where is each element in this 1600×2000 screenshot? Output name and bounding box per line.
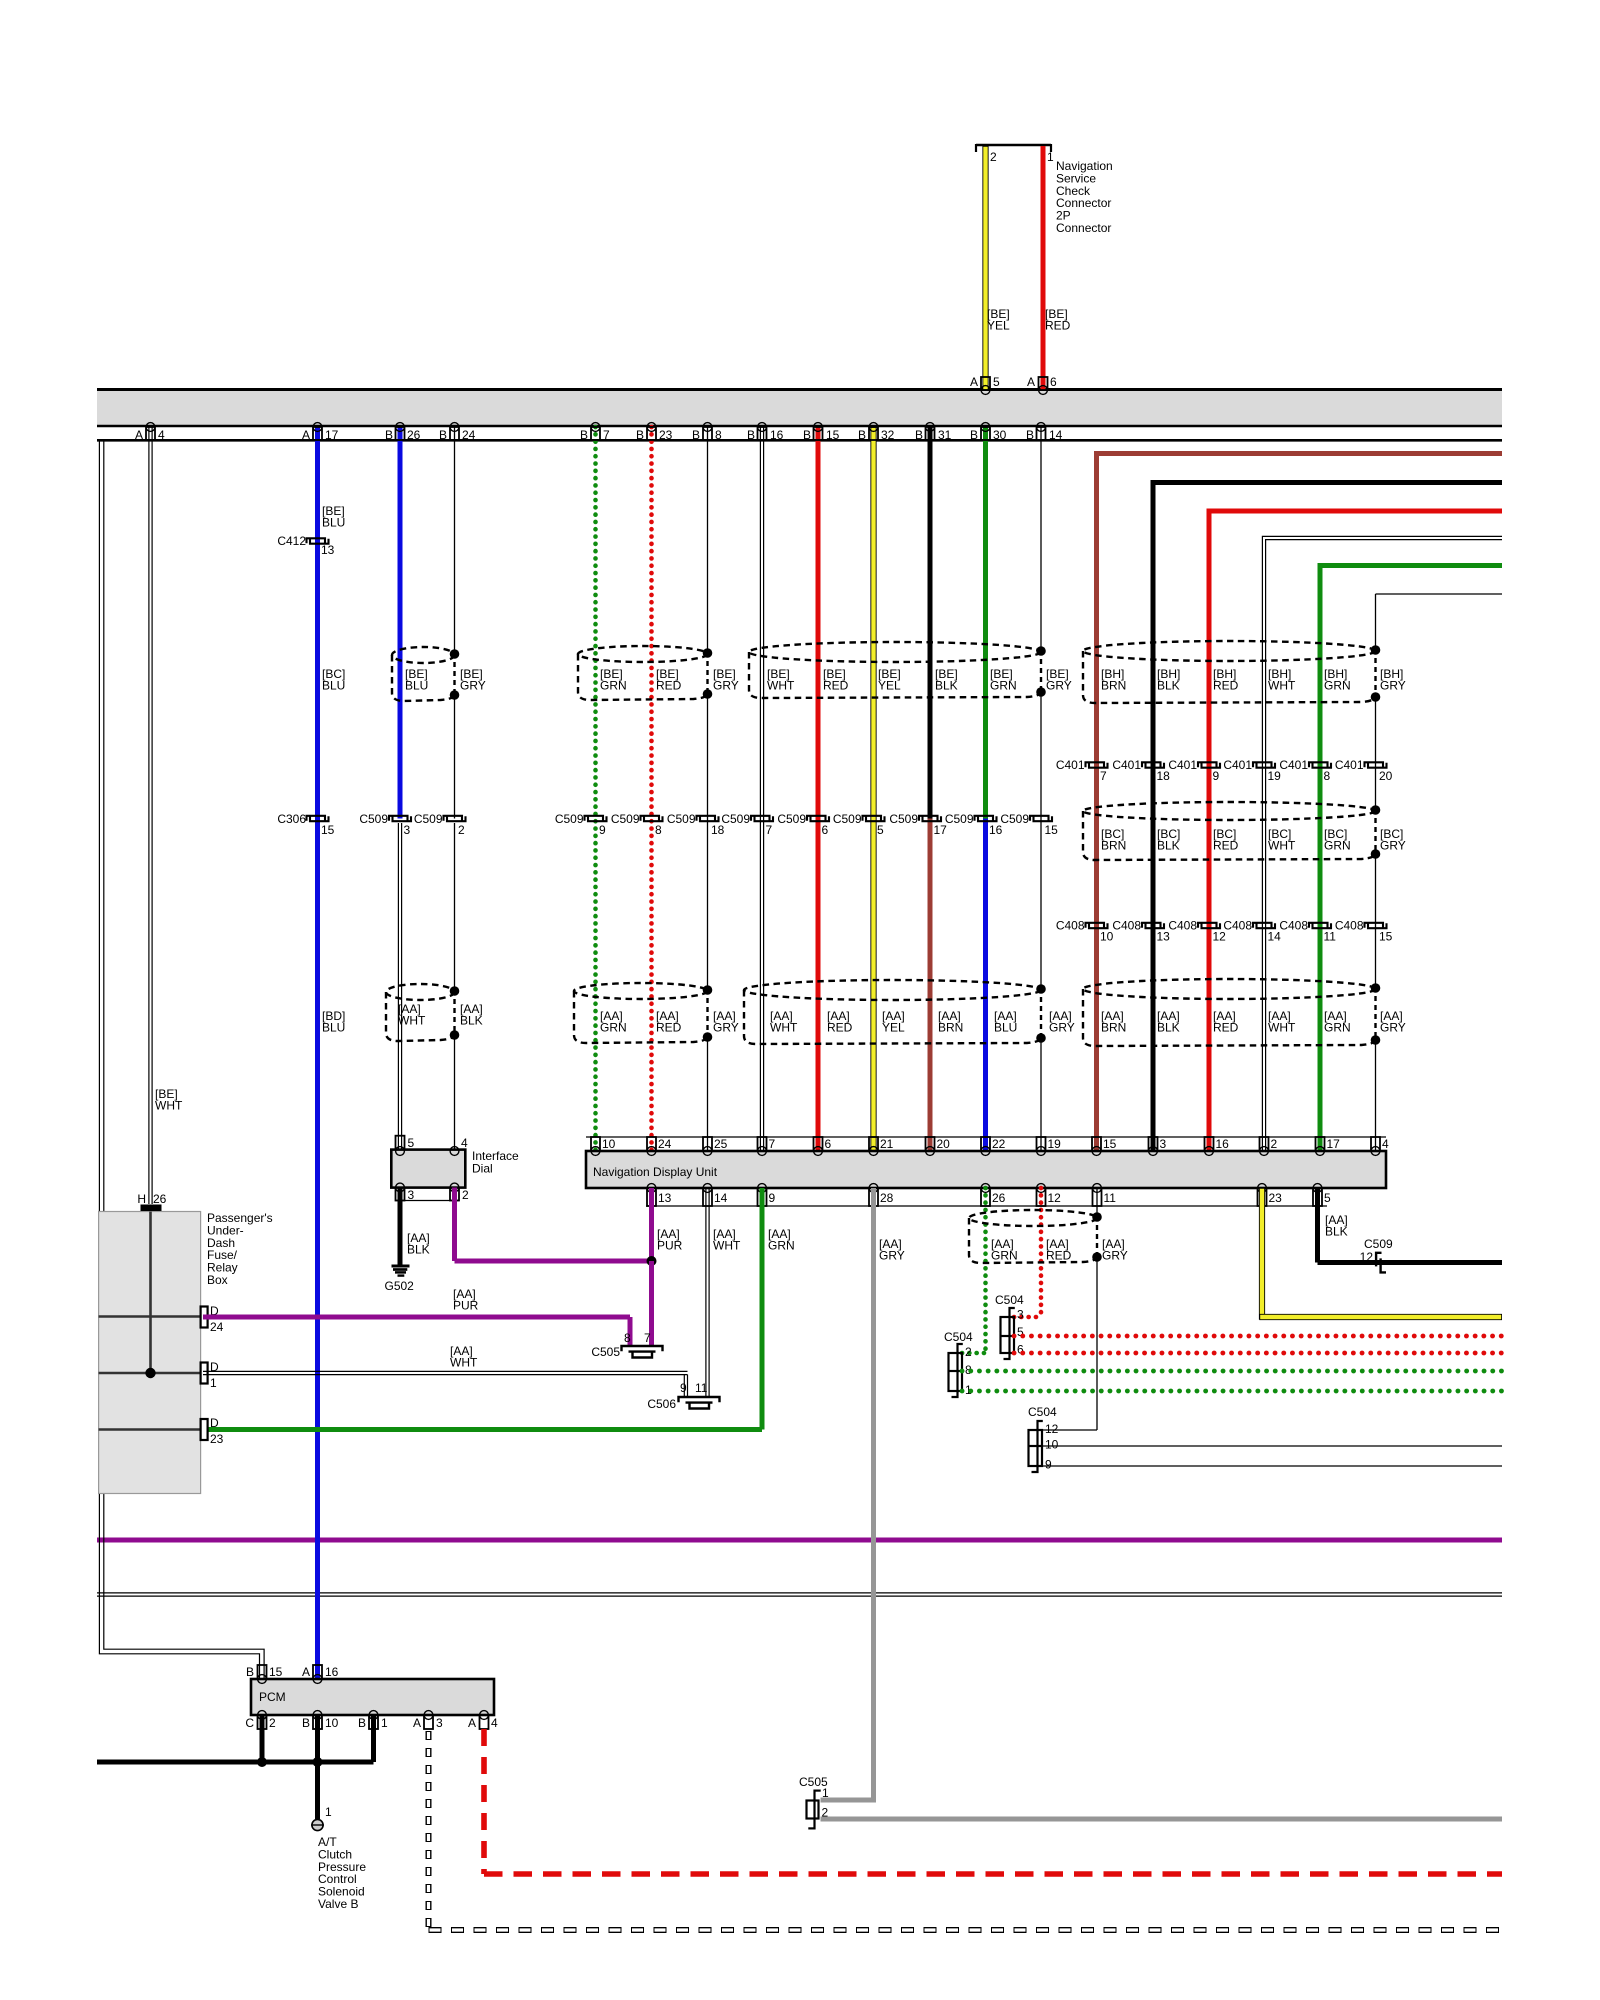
pin B 26 on bus bar bbox=[396, 423, 405, 432]
svg-text:15: 15 bbox=[1045, 823, 1059, 837]
node main harness bus bar bbox=[97, 390, 1502, 426]
svg-text:C401: C401 bbox=[1168, 758, 1197, 772]
svg-text:C504: C504 bbox=[995, 1293, 1024, 1307]
svg-text:Navigation Display Unit: Navigation Display Unit bbox=[593, 1165, 718, 1179]
svg-text:A: A bbox=[302, 428, 310, 442]
svg-text:A: A bbox=[302, 1665, 310, 1679]
svg-text:16: 16 bbox=[1216, 1137, 1230, 1151]
shield GRN/RED below nav bbox=[969, 1210, 1097, 1226]
svg-text:YEL: YEL bbox=[878, 679, 901, 693]
svg-text:4: 4 bbox=[491, 1716, 498, 1730]
svg-text:GRN: GRN bbox=[991, 1249, 1018, 1263]
svg-text:A: A bbox=[1027, 375, 1035, 389]
svg-text:A: A bbox=[970, 375, 978, 389]
svg-text:B: B bbox=[439, 428, 447, 442]
svg-text:C412: C412 bbox=[277, 534, 306, 548]
shield BRN..GRN BC mid bbox=[1083, 802, 1376, 820]
svg-text:C509: C509 bbox=[359, 812, 388, 826]
svg-text:RED: RED bbox=[656, 1021, 682, 1035]
svg-text:C: C bbox=[245, 1716, 254, 1730]
svg-text:A: A bbox=[468, 1716, 476, 1730]
svg-text:3: 3 bbox=[1017, 1308, 1024, 1322]
svg-text:5: 5 bbox=[877, 823, 884, 837]
wire [AA] GRY nav pin28 to C505-1 bbox=[871, 1188, 876, 1800]
svg-text:13: 13 bbox=[658, 1191, 672, 1205]
svg-text:RED: RED bbox=[827, 1021, 853, 1035]
svg-text:7: 7 bbox=[1100, 769, 1107, 783]
pin 3 of Interface Dial bbox=[396, 1183, 405, 1192]
ground G502 bbox=[392, 1265, 410, 1268]
svg-text:C509: C509 bbox=[889, 812, 918, 826]
pin 9 of nav display unit bottom bbox=[758, 1184, 767, 1193]
svg-text:GRN: GRN bbox=[600, 679, 627, 693]
svg-text:30: 30 bbox=[993, 428, 1007, 442]
pin 14 of nav display unit bottom bbox=[703, 1184, 712, 1193]
svg-text:4: 4 bbox=[461, 1136, 468, 1150]
svg-text:6: 6 bbox=[822, 823, 829, 837]
svg-text:WHT: WHT bbox=[1268, 839, 1296, 853]
svg-text:BLK: BLK bbox=[407, 1243, 430, 1257]
svg-text:B: B bbox=[1026, 428, 1034, 442]
wire interface dial bottom pin line bbox=[396, 1200, 460, 1202]
svg-text:WHT: WHT bbox=[450, 1356, 478, 1370]
wire BLK PCM C2 down bbox=[260, 1715, 265, 1762]
svg-text:10: 10 bbox=[325, 1716, 339, 1730]
pin 28 of nav display unit bottom bbox=[869, 1184, 878, 1193]
pin 22 of nav display unit top bbox=[981, 1137, 990, 1151]
svg-text:C408: C408 bbox=[1279, 919, 1308, 933]
pin 2 of Interface Dial bbox=[450, 1183, 459, 1192]
svg-text:BLU: BLU bbox=[322, 516, 345, 530]
wire [BE]/[AA] RED bus B23 to nav pin24 bbox=[649, 427, 654, 1151]
svg-text:C509: C509 bbox=[1364, 1237, 1393, 1251]
svg-text:RED: RED bbox=[1213, 679, 1239, 693]
svg-text:1: 1 bbox=[381, 1716, 388, 1730]
shield BLU/GRY pair upper bbox=[392, 647, 455, 663]
svg-text:22: 22 bbox=[992, 1137, 1006, 1151]
wire BLK bus to solenoid bbox=[97, 1760, 374, 1765]
svg-text:BLK: BLK bbox=[1325, 1225, 1348, 1239]
svg-text:7: 7 bbox=[769, 1137, 776, 1151]
svg-text:RED: RED bbox=[1045, 319, 1071, 333]
svg-text:BLU: BLU bbox=[322, 1021, 345, 1035]
svg-text:8: 8 bbox=[624, 1331, 631, 1345]
svg-text:15: 15 bbox=[321, 823, 335, 837]
svg-text:WHT: WHT bbox=[770, 1021, 798, 1035]
svg-text:G502: G502 bbox=[385, 1279, 415, 1293]
pin 17 of nav display unit top bbox=[1316, 1137, 1325, 1151]
wire [AA] YEL nav pin23 to right bbox=[1259, 1188, 1265, 1320]
svg-text:6: 6 bbox=[1050, 375, 1057, 389]
wire [BE]/[AA] WHT bus B16 to nav pin7 bbox=[759, 427, 761, 1151]
svg-text:32: 32 bbox=[881, 428, 895, 442]
svg-text:9: 9 bbox=[1045, 1458, 1052, 1472]
svg-text:C509: C509 bbox=[414, 812, 443, 826]
svg-text:GRN: GRN bbox=[1324, 839, 1351, 853]
wire [AA] WHT C509-3 to Interface Dial pin5 bbox=[397, 823, 399, 1150]
svg-text:2: 2 bbox=[1271, 1137, 1278, 1151]
svg-text:WHT: WHT bbox=[767, 679, 795, 693]
wire [AA] PUR junction to C505-7 bbox=[649, 1261, 654, 1345]
wire C504-10 to right bbox=[1042, 1445, 1502, 1447]
svg-text:3: 3 bbox=[436, 1716, 443, 1730]
svg-text:9: 9 bbox=[680, 1381, 687, 1395]
svg-text:GRY: GRY bbox=[1046, 679, 1072, 693]
svg-text:C509: C509 bbox=[721, 812, 750, 826]
shield WHT..BLU wide lower bbox=[744, 980, 1041, 1000]
svg-text:B: B bbox=[970, 428, 978, 442]
svg-text:20: 20 bbox=[1379, 769, 1393, 783]
pin D 1 of fuse box bbox=[201, 1363, 208, 1384]
svg-text:BLK: BLK bbox=[1157, 839, 1180, 853]
wire [BE] BLU bus B26 to C509-3 bbox=[398, 427, 403, 819]
svg-text:10: 10 bbox=[1045, 1438, 1059, 1452]
wire [AA] RED C504-6 to right bbox=[1014, 1351, 1502, 1356]
svg-text:GRN: GRN bbox=[1324, 1021, 1351, 1035]
svg-text:11: 11 bbox=[695, 1381, 708, 1395]
wire BLK PCM B1 down bbox=[371, 1715, 376, 1762]
svg-text:GRY: GRY bbox=[713, 679, 739, 693]
pin 2 of nav display unit top bbox=[1260, 1137, 1269, 1151]
svg-text:NavigationServiceCheckConnecto: NavigationServiceCheckConnector2PConnect… bbox=[1056, 159, 1113, 235]
connector Navigation Service Check Connector 2P bracket bbox=[976, 144, 1051, 147]
pin 15 of nav display unit top bbox=[1092, 1137, 1101, 1151]
pin B 1 of PCM bottom bbox=[369, 1711, 378, 1720]
junction purple bbox=[647, 1256, 657, 1266]
wire [AA] RED C504-5 to right bbox=[1014, 1334, 1502, 1339]
wire [BE] WHT bus A4 to fuse box H26 bbox=[148, 427, 150, 1204]
wire [AA] GRN nav pin9 to fuse box D23 bbox=[760, 1188, 765, 1430]
svg-text:8: 8 bbox=[715, 428, 722, 442]
svg-text:26: 26 bbox=[153, 1192, 167, 1206]
svg-text:BLK: BLK bbox=[1157, 1021, 1180, 1035]
svg-text:B: B bbox=[915, 428, 923, 442]
pin B 15 on bus bar bbox=[814, 423, 823, 432]
svg-text:14: 14 bbox=[714, 1191, 728, 1205]
svg-text:GRY: GRY bbox=[1380, 679, 1406, 693]
svg-text:B: B bbox=[747, 428, 755, 442]
svg-text:24: 24 bbox=[658, 1137, 672, 1151]
svg-text:2: 2 bbox=[965, 1345, 972, 1359]
wire [BE]/[AA] GRY bus B8 to nav pin25 bbox=[707, 427, 709, 653]
svg-text:17: 17 bbox=[1327, 1137, 1341, 1151]
wire [AA] GRN C504-1 to right bbox=[962, 1389, 1502, 1394]
svg-text:C504: C504 bbox=[944, 1330, 973, 1344]
pin B 32 on bus bar bbox=[869, 423, 878, 432]
svg-text:12: 12 bbox=[1360, 1250, 1374, 1264]
svg-text:15: 15 bbox=[1379, 930, 1393, 944]
svg-text:A: A bbox=[135, 428, 143, 442]
junction in fuse box bbox=[145, 1368, 155, 1378]
svg-text:C505: C505 bbox=[591, 1345, 620, 1359]
wire [AA] GRY nav pin11 to C504-12 bbox=[1096, 1188, 1098, 1216]
pin B 10 of PCM bottom bbox=[313, 1711, 322, 1720]
pin D 23 of fuse box bbox=[201, 1419, 208, 1440]
wire [AA] RED nav pin12 to C504-3 bbox=[1039, 1188, 1044, 1317]
svg-text:26: 26 bbox=[992, 1191, 1006, 1205]
wire [BH]/[BC]/[AA] GRY right entry to nav pin4 bbox=[1376, 593, 1503, 595]
svg-text:20: 20 bbox=[937, 1137, 951, 1151]
svg-text:23: 23 bbox=[1269, 1191, 1283, 1205]
pin 23 of nav display unit bottom bbox=[1258, 1184, 1267, 1193]
svg-text:1: 1 bbox=[1047, 150, 1054, 164]
svg-text:15: 15 bbox=[269, 1665, 283, 1679]
svg-text:WHT: WHT bbox=[1268, 679, 1296, 693]
wire RED dashed PCM A4 down and right bbox=[481, 1729, 487, 1874]
pin B 31 on bus bar bbox=[926, 423, 935, 432]
svg-text:C408: C408 bbox=[1223, 919, 1252, 933]
wire [AA] WHT fuse box D1 to C506-9 bbox=[203, 1370, 688, 1372]
wire [BH]/[BC]/[AA] RED right entry to nav pin16 bbox=[1209, 509, 1502, 514]
svg-text:25: 25 bbox=[714, 1137, 728, 1151]
svg-text:12: 12 bbox=[1048, 1191, 1062, 1205]
svg-text:B: B bbox=[636, 428, 644, 442]
shield BRN..GRN BH upper bbox=[1083, 641, 1376, 661]
svg-text:C506: C506 bbox=[647, 1397, 676, 1411]
wire [BH]/[BC]/[AA] GRN right entry to nav pin17 bbox=[1320, 563, 1502, 568]
pin B 24 on bus bar bbox=[450, 423, 459, 432]
svg-text:8: 8 bbox=[655, 823, 662, 837]
pin 25 of nav display unit top bbox=[703, 1137, 712, 1151]
svg-text:C401: C401 bbox=[1223, 758, 1252, 772]
svg-text:WHT: WHT bbox=[1268, 1021, 1296, 1035]
svg-text:C509: C509 bbox=[555, 812, 584, 826]
wire BLK PCM B10 to solenoid bbox=[315, 1715, 320, 1819]
wire purple bus horizontal bbox=[97, 1538, 1502, 1543]
wire [BH]/[BC]/[AA] BRN right entry to nav pin15 bbox=[1097, 451, 1503, 456]
pin A 3 of PCM bottom bbox=[424, 1711, 433, 1720]
svg-text:BRN: BRN bbox=[1101, 1021, 1126, 1035]
svg-text:PUR: PUR bbox=[453, 1299, 479, 1313]
svg-text:2: 2 bbox=[269, 1716, 276, 1730]
wire [BE] RED service check pin1 to A6 bbox=[1041, 146, 1046, 390]
wire internal bus in fuse box vertical bbox=[149, 1212, 152, 1374]
wire C504-9 to right bbox=[1042, 1465, 1502, 1467]
pin B 16 on bus bar bbox=[758, 423, 767, 432]
svg-text:15: 15 bbox=[1103, 1137, 1117, 1151]
svg-text:GRN: GRN bbox=[1324, 679, 1351, 693]
svg-text:H: H bbox=[137, 1192, 146, 1206]
svg-text:GRY: GRY bbox=[713, 1021, 739, 1035]
pin C 2 of PCM bottom bbox=[258, 1711, 267, 1720]
wire [AA] WHT nav pin14 to C506-11 bbox=[705, 1188, 707, 1396]
svg-text:RED: RED bbox=[1046, 1249, 1072, 1263]
wire [BE]/[AA] RED bus B15 to nav pin6 bbox=[816, 427, 821, 1151]
svg-text:GRN: GRN bbox=[768, 1239, 795, 1253]
pin 21 of nav display unit top bbox=[869, 1137, 878, 1151]
svg-text:4: 4 bbox=[1382, 1137, 1389, 1151]
svg-text:B: B bbox=[580, 428, 588, 442]
pin 6 of nav display unit top bbox=[814, 1137, 823, 1151]
svg-text:RED: RED bbox=[1213, 839, 1239, 853]
wire nav unit bottom pin line bbox=[646, 1205, 1327, 1207]
svg-text:BLU: BLU bbox=[405, 679, 428, 693]
svg-text:19: 19 bbox=[1048, 1137, 1062, 1151]
svg-text:C504: C504 bbox=[1028, 1405, 1057, 1419]
svg-text:16: 16 bbox=[770, 428, 784, 442]
svg-text:WHT: WHT bbox=[398, 1014, 426, 1028]
pin 11 of nav display unit bottom bbox=[1093, 1184, 1102, 1193]
svg-text:RED: RED bbox=[823, 679, 849, 693]
wire [AA] PUR junction to interface pin2 bbox=[455, 1259, 652, 1264]
wire [BE]/[AA] GRN bus B7 to nav pin10 bbox=[593, 427, 598, 1151]
svg-text:12: 12 bbox=[1045, 1422, 1059, 1436]
svg-text:GRN: GRN bbox=[990, 679, 1017, 693]
pin 4 of nav display unit top bbox=[1371, 1137, 1380, 1151]
svg-text:C509: C509 bbox=[1000, 812, 1029, 826]
wire internal bus in fuse box row2 bbox=[99, 1372, 201, 1375]
component Passenger's Under-Dash Fuse/Relay Box bbox=[99, 1212, 201, 1494]
svg-text:BLU: BLU bbox=[994, 1021, 1017, 1035]
svg-text:11: 11 bbox=[1104, 1191, 1117, 1205]
svg-text:17: 17 bbox=[325, 428, 339, 442]
pin 20 of nav display unit top bbox=[926, 1137, 935, 1151]
svg-text:9: 9 bbox=[599, 823, 606, 837]
pin 12 of nav display unit bottom bbox=[1037, 1184, 1046, 1193]
svg-text:C509: C509 bbox=[945, 812, 974, 826]
svg-text:RED: RED bbox=[656, 679, 682, 693]
pin 16 of nav display unit top bbox=[1205, 1137, 1214, 1151]
wire [AA] PUR nav pin13 to junction bbox=[649, 1188, 654, 1261]
svg-text:9: 9 bbox=[1213, 769, 1220, 783]
svg-text:24: 24 bbox=[462, 428, 476, 442]
svg-text:C509: C509 bbox=[611, 812, 640, 826]
wire [AA] BLK nav pin5 to right bbox=[1315, 1188, 1320, 1263]
svg-text:4: 4 bbox=[158, 428, 165, 442]
svg-text:C408: C408 bbox=[1168, 919, 1197, 933]
svg-text:14: 14 bbox=[1049, 428, 1063, 442]
svg-text:B: B bbox=[385, 428, 393, 442]
wire [BE] GRN bus B30 to C509-16 bbox=[983, 427, 988, 819]
svg-text:3: 3 bbox=[1160, 1137, 1167, 1151]
junction black C2 bbox=[257, 1757, 267, 1767]
svg-text:C408: C408 bbox=[1335, 919, 1364, 933]
svg-text:WHT: WHT bbox=[155, 1099, 183, 1113]
svg-text:GRY: GRY bbox=[1102, 1249, 1128, 1263]
wire [AA] BLK interface pin3 to G502 bbox=[398, 1188, 403, 1266]
svg-text:23: 23 bbox=[659, 428, 673, 442]
svg-text:5: 5 bbox=[1324, 1191, 1331, 1205]
pin B 14 on bus bar bbox=[1037, 423, 1046, 432]
pin 3 of nav display unit top bbox=[1149, 1137, 1158, 1151]
svg-text:21: 21 bbox=[880, 1137, 894, 1151]
svg-text:YEL: YEL bbox=[882, 1021, 905, 1035]
shield GRN/RED upper bbox=[578, 646, 708, 662]
wire internal bus in fuse box row1 bbox=[99, 1315, 201, 1318]
svg-text:2: 2 bbox=[990, 150, 997, 164]
svg-text:1: 1 bbox=[210, 1376, 217, 1390]
svg-text:B: B bbox=[692, 428, 700, 442]
pin B 30 on bus bar bbox=[981, 423, 990, 432]
svg-text:24: 24 bbox=[210, 1320, 224, 1334]
svg-text:9: 9 bbox=[769, 1191, 776, 1205]
svg-text:23: 23 bbox=[210, 1432, 224, 1446]
junction black B10 bbox=[313, 1757, 323, 1767]
wire [BE] GRY bus B24 to C509-2 bbox=[454, 427, 456, 654]
component A/T Clutch Pressure Control Solenoid Valve B terminal bbox=[312, 1819, 323, 1830]
pin D 24 of fuse box bbox=[201, 1307, 208, 1328]
wire [BH]/[BC]/[AA] BLK right entry to nav pin3 bbox=[1153, 480, 1502, 485]
pin A 4 of PCM bottom bbox=[480, 1711, 489, 1720]
svg-text:5: 5 bbox=[408, 1136, 415, 1150]
wire [AA] GRN nav pin26 to C504-2 bbox=[983, 1188, 988, 1353]
wire hollow dashed PCM A3 down and right bbox=[426, 1731, 432, 1930]
pin 13 of nav display unit bottom bbox=[647, 1184, 656, 1193]
svg-text:15: 15 bbox=[826, 428, 840, 442]
svg-text:PCM: PCM bbox=[259, 1690, 286, 1704]
shield WHT..GRN wide upper bbox=[749, 642, 1041, 662]
svg-text:C408: C408 bbox=[1056, 919, 1085, 933]
svg-text:YEL: YEL bbox=[987, 319, 1010, 333]
svg-text:2: 2 bbox=[458, 823, 465, 837]
wire [BE] BLK bus B31 to C509-17 bbox=[928, 427, 933, 819]
svg-text:6: 6 bbox=[825, 1137, 832, 1151]
svg-text:3: 3 bbox=[404, 823, 411, 837]
wire [AA] PUR fuse box D24 to C505-8 bbox=[203, 1315, 630, 1320]
svg-text:BRN: BRN bbox=[1101, 679, 1126, 693]
wire [AA] BLU C509-16 to nav pin22 bbox=[983, 819, 988, 1152]
svg-text:8: 8 bbox=[1324, 769, 1331, 783]
svg-text:2: 2 bbox=[462, 1188, 469, 1202]
wire [BE]/[AA] GRY bus B14 to nav pin19 bbox=[1040, 427, 1042, 651]
svg-text:GRY: GRY bbox=[1380, 1021, 1406, 1035]
svg-text:C408: C408 bbox=[1112, 919, 1141, 933]
svg-text:B: B bbox=[803, 428, 811, 442]
svg-text:1: 1 bbox=[325, 1805, 332, 1819]
svg-text:7: 7 bbox=[766, 823, 773, 837]
svg-text:BLU: BLU bbox=[322, 679, 345, 693]
svg-text:GRY: GRY bbox=[879, 1249, 905, 1263]
pin 24 of nav display unit top bbox=[647, 1137, 656, 1151]
svg-text:B: B bbox=[302, 1716, 310, 1730]
svg-text:B: B bbox=[358, 1716, 366, 1730]
svg-text:RED: RED bbox=[1213, 1021, 1239, 1035]
pin 19 of nav display unit top bbox=[1037, 1137, 1046, 1151]
svg-text:GRY: GRY bbox=[1049, 1021, 1075, 1035]
pin A 17 on bus bar bbox=[313, 423, 322, 432]
svg-text:13: 13 bbox=[321, 543, 335, 557]
svg-text:PUR: PUR bbox=[657, 1239, 683, 1253]
svg-text:WHT: WHT bbox=[713, 1239, 741, 1253]
shield WHT/BLK pair lower bbox=[386, 984, 455, 1000]
svg-text:D: D bbox=[210, 1416, 219, 1430]
shield GRN/RED lower bbox=[574, 983, 708, 999]
shield BRN..GRN AA lower bbox=[1083, 979, 1376, 999]
svg-text:GRY: GRY bbox=[1380, 839, 1406, 853]
component Navigation Display Unit bbox=[586, 1151, 1386, 1188]
wire [AA] BLK C509-2 to Interface Dial pin4 bbox=[454, 823, 456, 993]
component PCM bbox=[251, 1679, 494, 1715]
svg-text:A: A bbox=[413, 1716, 421, 1730]
wire [AA] GRY C505-2 to right bbox=[821, 1817, 1503, 1822]
svg-text:C306: C306 bbox=[277, 812, 306, 826]
pin B 7 on bus bar bbox=[591, 423, 600, 432]
svg-text:C509: C509 bbox=[667, 812, 696, 826]
svg-text:16: 16 bbox=[325, 1665, 339, 1679]
wire white double horizontal bbox=[97, 1592, 1502, 1594]
pin 5 of Interface Dial bbox=[396, 1136, 405, 1150]
svg-text:BLK: BLK bbox=[1157, 679, 1180, 693]
svg-text:C401: C401 bbox=[1335, 758, 1364, 772]
svg-text:5: 5 bbox=[993, 375, 1000, 389]
svg-text:7: 7 bbox=[644, 1331, 651, 1345]
pin B 23 on bus bar bbox=[647, 423, 656, 432]
svg-text:31: 31 bbox=[938, 428, 952, 442]
wire [BH]/[BC]/[AA] WHT right entry to nav pin2 bbox=[1262, 536, 1502, 1151]
wire [BE]/[AA] YEL bus B32 to nav pin21 bbox=[870, 427, 876, 1151]
svg-text:GRN: GRN bbox=[600, 1021, 627, 1035]
component Interface Dial bbox=[391, 1150, 465, 1188]
